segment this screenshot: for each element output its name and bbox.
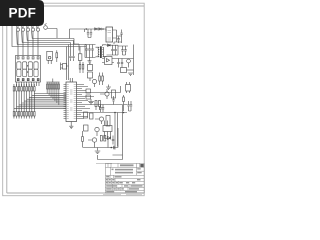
svg-text:PDF: PDF <box>8 6 36 21</box>
